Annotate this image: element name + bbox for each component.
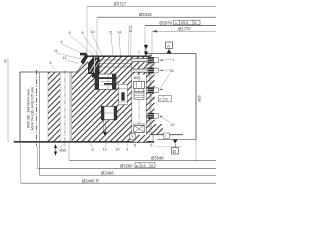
horizontal bolt 4 <box>148 113 159 119</box>
svg-text:Ø3318: Ø3318 <box>139 12 152 17</box>
right block left edge <box>149 54 151 135</box>
bolt centerline <box>138 51 140 138</box>
ring joint diagonal <box>77 56 88 72</box>
svg-text:8: 8 <box>134 144 136 148</box>
svg-text:Ø3280: Ø3280 <box>120 164 133 169</box>
body bottom edge <box>14 141 154 143</box>
leader shelf line <box>154 146 182 148</box>
svg-text:Ø3548: Ø3548 <box>151 155 164 160</box>
lower nut with cross <box>134 125 144 132</box>
svg-text:Ø2770: Ø2770 <box>178 27 191 32</box>
svg-text:5: 5 <box>50 61 52 65</box>
dim D3280 with frame <box>37 146 39 168</box>
svg-text:⊕: ⊕ <box>136 164 139 168</box>
shim stack lines <box>100 59 132 61</box>
hatch upper wedge <box>77 56 150 72</box>
svg-text:0.5: 0.5 <box>141 164 146 168</box>
svg-text:Ø3727: Ø3727 <box>114 1 127 6</box>
svg-text:16: 16 <box>128 29 132 33</box>
bolt column bottom hatch <box>132 135 147 142</box>
svg-text:11: 11 <box>109 30 113 34</box>
svg-text:⊥: ⊥ <box>175 21 178 25</box>
roller R2 hole <box>101 106 117 119</box>
svg-text:Ø20: Ø20 <box>134 76 141 80</box>
svg-text:26: 26 <box>170 69 174 73</box>
hatch main mass band1 <box>48 72 60 142</box>
hatch right block pocket wedge <box>148 74 155 88</box>
horizontal bolt 2 <box>133 68 159 74</box>
right block right edge <box>195 54 197 140</box>
svg-text:12: 12 <box>103 148 107 152</box>
right extension for D3548 <box>195 139 197 161</box>
middle roller channel <box>119 84 127 104</box>
svg-text:B: B <box>173 149 176 154</box>
right block lower lip <box>157 138 196 140</box>
roller R2 leader pin <box>103 120 105 132</box>
svg-text:Ø26 otb. 144×M24 ravn.: Ø26 otb. 144×M24 ravn. <box>26 88 30 128</box>
dim D3548 <box>68 142 70 160</box>
svg-text:20: 20 <box>171 123 175 127</box>
white channel between rings <box>60 72 72 142</box>
svg-text:Ø2976: Ø2976 <box>159 21 172 26</box>
hatch right block bottom wedge <box>153 124 163 135</box>
bolt column channel <box>132 75 147 136</box>
svg-text:11: 11 <box>54 49 58 53</box>
grease box with cross <box>130 134 136 140</box>
left ring bore line <box>39 72 41 176</box>
seal dark parts <box>81 54 89 65</box>
dim line D3727 <box>87 5 216 7</box>
horizontal bolt 3 <box>148 87 159 93</box>
left extension line <box>7 58 9 142</box>
svg-text:15: 15 <box>116 148 120 152</box>
right block top edge <box>147 53 196 55</box>
small boxed mark <box>164 133 170 139</box>
roller R2 <box>101 106 117 119</box>
svg-text:14: 14 <box>117 30 121 34</box>
left ring bolt hole centerline <box>36 70 38 146</box>
svg-text:4: 4 <box>61 40 63 44</box>
datum B symbol <box>173 140 178 144</box>
dim line D2770 <box>152 30 216 32</box>
svg-text:Ø2440 f7: Ø2440 f7 <box>82 178 100 183</box>
svg-text:3: 3 <box>126 148 128 152</box>
stud nut <box>134 81 145 88</box>
svg-text:Ø18: Ø18 <box>197 95 201 101</box>
svg-text:1: 1 <box>173 58 175 62</box>
dim line D2976 with tolerance frame <box>145 25 216 27</box>
dim D2468 <box>40 175 217 177</box>
svg-text:Ø2468: Ø2468 <box>101 171 114 176</box>
hatch right block strip <box>148 55 155 135</box>
bolt column walls <box>131 56 133 136</box>
right block bolt centerline <box>151 54 153 134</box>
svg-text:9: 9 <box>92 148 94 152</box>
dim line D3318 <box>97 16 216 18</box>
stacked arrow symbol <box>145 44 147 56</box>
svg-text:σ: σ <box>159 98 161 102</box>
roller R1 hole <box>95 74 116 90</box>
svg-text:8: 8 <box>82 31 84 35</box>
channel walls <box>59 72 61 142</box>
framed note box <box>159 96 172 102</box>
svg-text:=: = <box>165 135 167 139</box>
roller R1 <box>95 74 116 90</box>
horizontal bolt 1 <box>133 57 159 63</box>
svg-text:M24-7H (otb.144) h25 mm: M24-7H (otb.144) h25 mm <box>30 87 34 130</box>
svg-text:Ø2.5: Ø2.5 <box>181 21 188 25</box>
svg-text:6: 6 <box>151 143 153 147</box>
svg-text:5: 5 <box>153 97 155 101</box>
svg-text:5: 5 <box>69 31 71 35</box>
svg-text:14: 14 <box>4 59 8 63</box>
left ring left edge <box>19 72 21 142</box>
hatch main mass central <box>72 72 150 142</box>
svg-text:10: 10 <box>91 30 95 34</box>
dim 35 arrows <box>55 145 57 156</box>
middle roller channel <box>119 84 127 104</box>
svg-text:Ø35: Ø35 <box>60 149 67 153</box>
right block bottom edge <box>150 134 183 136</box>
svg-text:12: 12 <box>63 56 67 60</box>
middle roller <box>121 92 124 100</box>
upper ring top edge <box>85 55 150 57</box>
dim D2440 <box>20 142 22 183</box>
datum A symbol <box>166 42 173 49</box>
step between bottoms <box>152 135 154 142</box>
left ring top edge <box>20 71 77 73</box>
